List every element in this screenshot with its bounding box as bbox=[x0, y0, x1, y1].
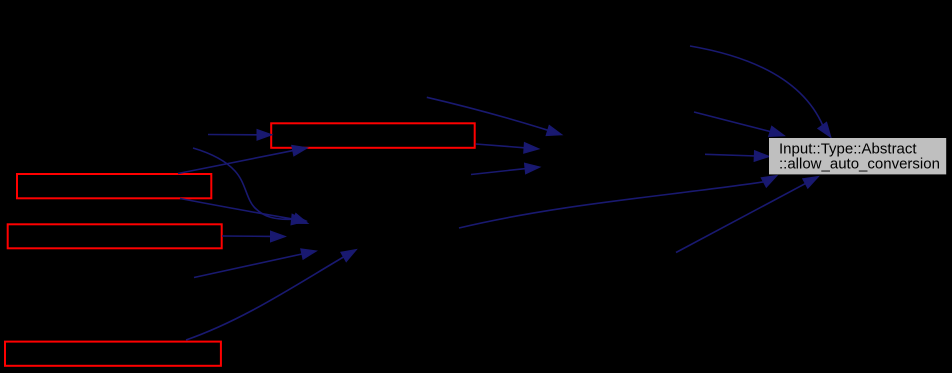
edge nodeM2 to grey node bbox=[459, 176, 777, 229]
svg-text:::allow_auto_conversion: ::allow_auto_conversion bbox=[779, 156, 940, 173]
edge box3 to nodeM2 bbox=[222, 231, 286, 242]
edge nodeC to grey node bbox=[676, 177, 819, 253]
node box3 (red, caller) bbox=[8, 224, 222, 248]
grey node: Input::Type::Abstract::allow_auto_conversion (current function) bbox=[769, 138, 946, 174]
edge box2 to box1 bbox=[178, 145, 308, 173]
edge nodeT1 to grey node (arc) bbox=[690, 46, 831, 138]
edge nodeD to nodeM1 bbox=[471, 163, 540, 174]
node box2 (red, caller) bbox=[17, 174, 211, 198]
edge box2 to nodeM2 bbox=[180, 199, 308, 224]
edge box1 to nodeM1 bbox=[476, 143, 539, 154]
edge nodeB to nodeM2 bbox=[194, 249, 317, 278]
edge nodeA to nodeM2 (S-curve) bbox=[193, 148, 307, 225]
edge nodeT3 to nodeM1 (curve) bbox=[427, 97, 562, 135]
edge nodeT2 to grey node bbox=[694, 112, 785, 137]
edge box4 to nodeC (curve) bbox=[186, 250, 357, 341]
node box1 (red, caller) bbox=[271, 123, 475, 148]
edge nodeM1 to grey node bbox=[705, 151, 769, 162]
edge nodeA to box1 bbox=[208, 129, 272, 140]
node box4 (red, caller) bbox=[5, 342, 221, 366]
